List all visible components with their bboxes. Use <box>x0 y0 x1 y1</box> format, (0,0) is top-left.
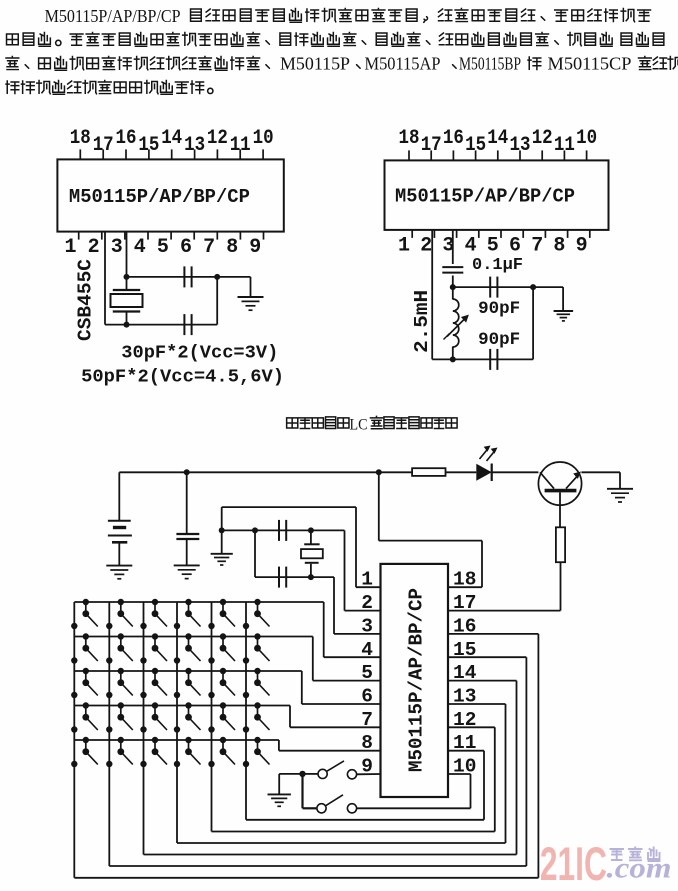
svg-text:CSB455C: CSB455C <box>75 259 97 341</box>
svg-text:90pF: 90pF <box>478 330 520 350</box>
svg-text:0.1μF: 0.1μF <box>472 256 523 275</box>
svg-text:5: 5 <box>487 234 499 257</box>
svg-text:11: 11 <box>554 134 575 157</box>
svg-text:6: 6 <box>180 236 192 259</box>
svg-text:9: 9 <box>249 236 261 259</box>
svg-text:6: 6 <box>509 234 521 257</box>
svg-text:3: 3 <box>111 236 123 259</box>
svg-text:4: 4 <box>465 234 477 257</box>
svg-text:2.5mH: 2.5mH <box>411 290 433 353</box>
svg-text:9: 9 <box>576 234 588 257</box>
svg-text:17: 17 <box>93 134 114 157</box>
svg-text:50pF*2(Vcc=4.5,6V): 50pF*2(Vcc=4.5,6V) <box>81 367 284 388</box>
svg-text:17: 17 <box>421 134 442 157</box>
svg-text:M50115P: M50115P <box>280 54 350 74</box>
svg-text:14: 14 <box>487 127 508 150</box>
svg-text:10: 10 <box>576 127 597 150</box>
svg-text:1: 1 <box>64 236 76 259</box>
svg-text:5: 5 <box>157 236 169 259</box>
svg-text:M50115P/AP/BP/CP: M50115P/AP/BP/CP <box>45 6 181 26</box>
svg-text:13: 13 <box>510 134 531 157</box>
svg-text:15: 15 <box>138 134 159 157</box>
svg-text:12: 12 <box>207 127 228 150</box>
svg-text:7: 7 <box>531 234 543 257</box>
svg-text:M50115CP: M50115CP <box>548 54 632 74</box>
svg-text:M50115AP: M50115AP <box>365 54 441 74</box>
svg-text:M50115P/AP/BP/CP: M50115P/AP/BP/CP <box>406 588 428 772</box>
svg-text:8: 8 <box>226 236 238 259</box>
svg-text:M50115P/AP/BP/CP: M50115P/AP/BP/CP <box>395 186 575 208</box>
svg-text:2: 2 <box>88 236 100 259</box>
svg-text:M50115P/AP/BP/CP: M50115P/AP/BP/CP <box>69 186 250 208</box>
svg-text:16: 16 <box>443 127 464 150</box>
svg-text:90pF: 90pF <box>478 299 520 319</box>
svg-text:18: 18 <box>399 127 420 150</box>
svg-text:18: 18 <box>70 127 91 150</box>
svg-text:15: 15 <box>465 134 486 157</box>
svg-text:M50115BP: M50115BP <box>459 54 521 74</box>
svg-text:12: 12 <box>532 127 553 150</box>
svg-text:4: 4 <box>134 236 146 259</box>
svg-text:14: 14 <box>161 127 182 150</box>
svg-text:2: 2 <box>420 234 432 257</box>
svg-text:LC: LC <box>350 416 368 433</box>
svg-text:8: 8 <box>553 234 565 257</box>
svg-text:7: 7 <box>203 236 215 259</box>
svg-text:30pF*2(Vcc=3V): 30pF*2(Vcc=3V) <box>121 343 278 364</box>
svg-text:.com: .com <box>607 852 672 885</box>
svg-text:21IC: 21IC <box>540 837 607 890</box>
svg-text:10: 10 <box>253 127 274 150</box>
svg-text:16: 16 <box>116 127 137 150</box>
svg-text:1: 1 <box>398 234 410 257</box>
svg-text:13: 13 <box>184 134 205 157</box>
svg-text:11: 11 <box>230 134 251 157</box>
